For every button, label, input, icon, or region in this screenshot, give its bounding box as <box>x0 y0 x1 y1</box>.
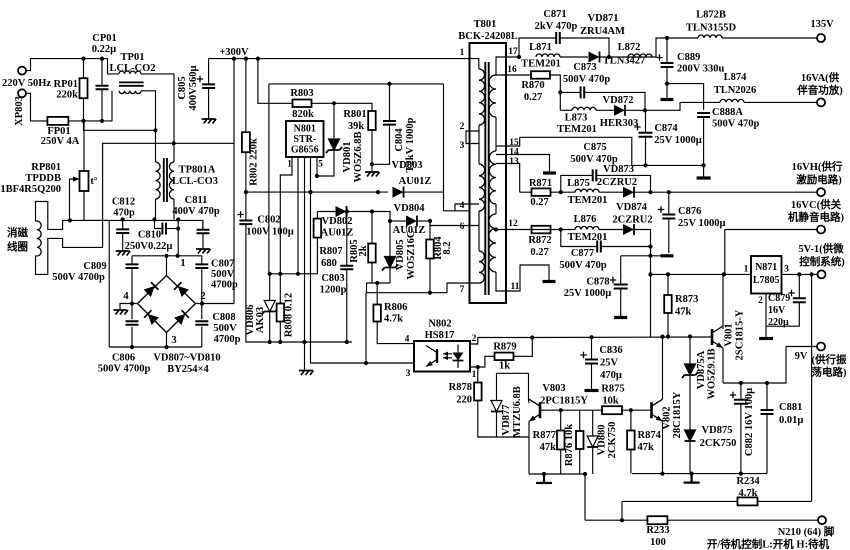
resistor R877 <box>557 431 565 450</box>
node V802 base node <box>629 408 633 412</box>
wire V803 base row <box>540 409 602 411</box>
svg-text:25V 1000µ: 25V 1000µ <box>654 135 702 146</box>
terminal 16VC <box>817 226 825 234</box>
wire VD806 line <box>269 274 271 301</box>
node TP801A top <box>153 128 157 132</box>
wire fuse to filter <box>68 91 112 121</box>
winding T801 sec lower <box>489 214 496 272</box>
terminal 135V <box>817 34 825 42</box>
ground N871 <box>759 337 773 340</box>
nc bar pin11 <box>543 280 556 283</box>
node C875 tap <box>559 190 563 194</box>
wire C810 left <box>155 220 163 229</box>
svg-text:TP801A: TP801A <box>179 165 216 176</box>
wire C874 line <box>645 110 647 133</box>
transformer T801 box <box>470 43 507 303</box>
wire C806 bottom <box>131 327 133 347</box>
ground C811 <box>196 249 211 254</box>
svg-text:135V: 135V <box>810 19 834 30</box>
svg-text:2CZRU2: 2CZRU2 <box>597 177 637 188</box>
node R870 node <box>558 90 562 94</box>
node 16V rail mid <box>648 244 652 248</box>
svg-text:1: 1 <box>180 258 185 269</box>
wire T801 right column <box>495 69 497 75</box>
wire degauss top staircase <box>36 202 85 230</box>
svg-text:25V 1000µ: 25V 1000µ <box>564 288 612 299</box>
wire TP01 upper out <box>141 74 174 143</box>
svg-text:2CK750: 2CK750 <box>700 438 737 449</box>
svg-text:C889: C889 <box>677 52 700 63</box>
svg-text:L874: L874 <box>724 72 748 83</box>
arrow RP801 <box>70 178 78 180</box>
svg-text:VD871: VD871 <box>588 13 619 24</box>
nc bar pin14 <box>543 171 556 174</box>
optocoupler N802 box <box>414 341 470 372</box>
resistor R873 <box>664 295 672 313</box>
resistor R876 <box>576 431 584 449</box>
wire C888A bottom <box>703 117 705 177</box>
wire snubber top <box>269 83 444 85</box>
terminal 16VA <box>817 98 825 106</box>
inductor TP01 upper <box>119 71 141 74</box>
svg-text:L872B: L872B <box>696 10 726 21</box>
diode VD806 zener <box>264 301 275 312</box>
svg-text:R807: R807 <box>319 246 342 257</box>
inductor L875 <box>575 189 599 192</box>
wire CP01 top <box>101 59 103 86</box>
svg-text:C805: C805 <box>177 76 188 99</box>
winding T801 primary mid <box>479 164 485 211</box>
svg-text:500V 470p: 500V 470p <box>559 260 607 271</box>
wire return riser <box>367 283 373 293</box>
wire C803 line <box>346 212 348 266</box>
svg-text:820k: 820k <box>292 109 314 120</box>
ground C836 <box>585 389 599 392</box>
wire 16VC line <box>725 229 817 231</box>
svg-text:VD872: VD872 <box>603 95 634 106</box>
svg-text:0.22µ: 0.22µ <box>92 44 116 55</box>
svg-text:STR-: STR- <box>293 134 316 145</box>
wire C889 line <box>666 38 668 63</box>
wire C810 right <box>166 228 178 230</box>
svg-text:5V-1(供微: 5V-1(供微 <box>798 242 844 255</box>
wire FP01 to TP801A <box>84 121 156 130</box>
wire R871 in <box>520 191 532 193</box>
node mid bus <box>121 217 125 221</box>
capacitor C807 <box>195 264 208 268</box>
wire pin12 row <box>532 229 576 231</box>
node hot bus dots <box>244 190 248 194</box>
inductor TP801A left <box>156 162 161 199</box>
svg-text:500V 4700p: 500V 4700p <box>52 272 105 283</box>
wire pin17 stub <box>496 57 519 69</box>
inductor TP01 lower <box>119 91 141 94</box>
wire R873 line <box>667 274 669 295</box>
wire L871 out <box>560 56 588 58</box>
wire R877 line <box>560 410 562 430</box>
svg-text:17: 17 <box>508 47 518 57</box>
wire R879 path <box>478 356 495 367</box>
thermistor RP801 <box>80 171 89 191</box>
svg-text:200V 330u: 200V 330u <box>677 64 725 75</box>
svg-text:R802 220k: R802 220k <box>249 138 260 186</box>
IC N871 box <box>751 256 782 294</box>
svg-text:V801: V801 <box>724 323 735 346</box>
bridge diamond <box>138 276 196 333</box>
ground C888A <box>697 176 711 179</box>
wire V802 emitter <box>662 421 664 473</box>
svg-text:7: 7 <box>460 285 465 295</box>
svg-text:C882 16V 100µ: C882 16V 100µ <box>744 388 755 456</box>
svg-text:1: 1 <box>472 370 477 380</box>
wire N802 pin3 drop <box>365 293 367 363</box>
svg-text:荡电路): 荡电路) <box>812 366 847 379</box>
diode VD801 zener <box>329 139 340 150</box>
LED arrows <box>443 354 452 358</box>
capacitor C836 <box>585 360 598 364</box>
wire R233 row <box>585 519 647 521</box>
core TP801A <box>164 158 167 202</box>
svg-text:2: 2 <box>460 122 465 132</box>
wire R871 out <box>551 191 576 193</box>
wire R807 riser <box>316 212 318 219</box>
capacitor C877 <box>597 241 601 253</box>
node RP801 wiper junction <box>68 218 72 222</box>
svg-text:G8656: G8656 <box>291 145 319 156</box>
wire C836 line <box>591 337 593 359</box>
node N802 pin1 <box>476 365 480 369</box>
svg-text:C873: C873 <box>573 62 596 73</box>
svg-text:2: 2 <box>758 296 763 306</box>
svg-text:控制系统): 控制系统) <box>799 255 845 268</box>
wire L875 out <box>599 191 623 193</box>
svg-text:TLN3155D: TLN3155D <box>686 23 737 34</box>
svg-text:V803: V803 <box>542 383 565 394</box>
svg-text:1k: 1k <box>499 361 510 372</box>
svg-text:N802: N802 <box>428 319 451 330</box>
wire 300V to bridge <box>233 59 235 304</box>
capacitor C812 <box>116 229 129 233</box>
fuse FP01 <box>47 117 68 125</box>
wire R806 line <box>376 283 378 305</box>
svg-text:C809: C809 <box>83 261 106 272</box>
inductor TP801A right <box>169 162 174 199</box>
node R234 riser <box>620 518 624 522</box>
wire C811 line <box>202 220 204 229</box>
wire R875 out <box>622 409 652 411</box>
svg-text:V802: V802 <box>662 406 673 429</box>
resistor R803 <box>293 100 312 108</box>
wire N801 pin1 <box>280 157 292 304</box>
svg-text:C881: C881 <box>779 402 802 413</box>
wire TP801A right bottom <box>173 199 175 220</box>
wire pin12 stub <box>496 229 531 231</box>
wire VD801 line <box>333 103 335 138</box>
svg-text:8.2: 8.2 <box>442 241 453 254</box>
capacitor C804 <box>383 121 396 125</box>
wire VD877 top <box>497 372 529 374</box>
svg-text:9V: 9V <box>795 351 808 362</box>
node V803 base node <box>559 408 563 412</box>
svg-text:机静音电路): 机静音电路) <box>788 211 844 224</box>
wire filtered AC bus <box>84 219 109 221</box>
svg-text:LCL-CO3: LCL-CO3 <box>172 176 218 187</box>
wire pin15 path <box>520 137 704 165</box>
node bridge bottom <box>130 345 134 349</box>
svg-text:47k: 47k <box>638 442 655 453</box>
svg-text:TPDDB: TPDDB <box>25 173 61 184</box>
svg-text:2SC1815-Y: 2SC1815-Y <box>735 309 746 360</box>
svg-text:AK03: AK03 <box>255 307 266 333</box>
wire pin14 stub <box>496 155 550 172</box>
terminal AC input line 2 <box>18 89 26 97</box>
wire emitter gnd row <box>529 473 585 475</box>
capacitor C879 <box>793 298 806 302</box>
svg-text:500V 470p: 500V 470p <box>563 74 611 85</box>
wire L874 out <box>744 101 817 103</box>
capacitor C876 <box>662 215 675 219</box>
inductor L871 <box>536 54 560 57</box>
resistor R870 <box>531 71 550 79</box>
svg-text:L873: L873 <box>565 113 588 124</box>
transistor V802 <box>650 402 653 418</box>
svg-text:10k: 10k <box>602 396 619 407</box>
wire VD802 out <box>347 212 391 222</box>
wire C877 branch <box>561 230 597 247</box>
node VD805 bottom node <box>375 281 379 285</box>
IC N801 box <box>286 121 324 157</box>
terminal AC input line 1 <box>18 67 26 75</box>
svg-text:VD874: VD874 <box>616 202 648 213</box>
node C804 top <box>387 82 391 86</box>
svg-text:VD801: VD801 <box>342 142 353 173</box>
wire bridge bottom riser <box>166 333 168 348</box>
wire standby drop <box>584 474 586 520</box>
wire VD803 out <box>404 191 444 193</box>
node rail dots <box>232 57 236 61</box>
svg-text:C888A: C888A <box>712 107 743 118</box>
wire C810 node riser <box>177 220 179 256</box>
wire C879 line <box>798 274 800 298</box>
core TP01 <box>119 82 144 85</box>
svg-text:R803: R803 <box>290 88 313 99</box>
svg-text:HER303: HER303 <box>600 118 639 129</box>
wire pin11 loop <box>496 265 549 291</box>
svg-text:R234: R234 <box>736 476 760 487</box>
svg-text:0.01µ: 0.01µ <box>779 415 803 426</box>
wire VD806 top <box>270 273 318 275</box>
svg-text:TLN2026: TLN2026 <box>714 85 757 96</box>
wire R803 feed <box>258 59 270 104</box>
wire clamp row <box>317 211 336 213</box>
capacitor C803 <box>340 266 353 270</box>
ground V803 <box>536 474 552 483</box>
wire N801 pin2 <box>297 157 299 274</box>
wire TP01 lower out <box>141 91 156 162</box>
svg-text:1BF4R5Q200: 1BF4R5Q200 <box>0 184 61 195</box>
wire C881 line <box>766 383 768 410</box>
node VD871 out <box>607 55 611 59</box>
svg-text:R877: R877 <box>533 430 556 441</box>
svg-text:VD807~VD810: VD807~VD810 <box>153 353 220 364</box>
svg-text:470p: 470p <box>113 208 135 219</box>
wire pin16 stub <box>496 74 531 76</box>
wire input top <box>26 59 119 74</box>
svg-text:TEM201: TEM201 <box>557 124 597 135</box>
svg-text:C879: C879 <box>768 293 790 304</box>
svg-text:R870: R870 <box>521 80 544 91</box>
svg-text:13: 13 <box>509 157 519 167</box>
node C877 tap <box>559 227 563 231</box>
capacitor C810 <box>162 223 166 235</box>
winding T801 sec upper <box>489 75 496 117</box>
node pin2 <box>200 301 204 305</box>
wire T801 left column <box>478 125 480 164</box>
svg-text:VD875A: VD875A <box>696 350 707 389</box>
svg-text:12: 12 <box>508 219 518 229</box>
wire hot bus 192 <box>246 191 388 193</box>
svg-text:开/待机控制L:开机 H:待机: 开/待机控制L:开机 H:待机 <box>707 538 830 550</box>
resistor R807 <box>314 219 322 238</box>
ground C812 <box>116 251 131 256</box>
svg-text:2CZRU2: 2CZRU2 <box>612 215 652 226</box>
svg-text:R874: R874 <box>638 430 662 441</box>
wire C876 line <box>668 192 670 214</box>
wire VD804 row <box>390 220 406 222</box>
svg-text:C810: C810 <box>138 230 161 241</box>
inductor L874 <box>720 99 744 102</box>
svg-text:39k: 39k <box>348 121 365 132</box>
ground C805 <box>202 119 217 124</box>
bar C878 bottom <box>614 316 627 319</box>
node R801 gnd <box>370 162 374 166</box>
svg-text:250V0.22µ: 250V0.22µ <box>125 241 173 252</box>
ground emitter bus <box>684 474 700 483</box>
svg-text:R879: R879 <box>493 342 516 353</box>
wire to 135V <box>722 37 817 39</box>
node pin12 tap <box>494 227 498 231</box>
wire V802 collector <box>662 337 664 400</box>
resistor R872 <box>532 226 551 234</box>
wire C809 line <box>131 256 133 265</box>
svg-text:4.7k: 4.7k <box>384 314 403 325</box>
svg-text:C806: C806 <box>112 353 135 364</box>
wire R870 out <box>550 75 560 110</box>
svg-text:RP801: RP801 <box>31 162 61 173</box>
wire C875 branch <box>561 175 593 192</box>
wire C804 top <box>389 84 391 121</box>
resistor R806 <box>373 305 381 322</box>
transistor V801 <box>711 329 714 345</box>
svg-text:C871: C871 <box>543 9 566 20</box>
diode VD807 <box>144 282 159 297</box>
wire RP801 wiper <box>69 179 71 220</box>
svg-text:RP01: RP01 <box>54 79 79 90</box>
svg-text:25V 1000µ: 25V 1000µ <box>678 218 726 229</box>
svg-text:R875: R875 <box>601 384 624 395</box>
wire 5V right drop <box>811 274 813 501</box>
wire L873 row <box>560 109 572 111</box>
svg-text:100V 100µ: 100V 100µ <box>246 227 294 238</box>
svg-text:R873: R873 <box>675 294 698 305</box>
wire V803 emitter <box>528 421 530 474</box>
svg-text:16: 16 <box>507 65 517 75</box>
svg-text:C802: C802 <box>257 215 280 226</box>
wire 16VA line <box>645 102 720 110</box>
svg-text:C878: C878 <box>586 277 609 288</box>
svg-text:500V 4700p: 500V 4700p <box>98 364 151 375</box>
capacitor C882 <box>734 400 748 404</box>
node N802 pin3 wire <box>364 361 368 365</box>
svg-text:4: 4 <box>405 335 410 345</box>
wire VD805 line <box>389 221 391 257</box>
resistor R805 <box>368 244 376 263</box>
winding T801 sec mid <box>489 151 496 204</box>
svg-text:0.27: 0.27 <box>530 197 548 208</box>
wire emitter bus <box>632 473 767 475</box>
capacitor C878 <box>614 285 628 289</box>
wire N871 pin2 stem <box>765 294 767 338</box>
wire pin2 stub <box>196 303 235 305</box>
inductor L876 <box>575 227 599 230</box>
wire +300V rail <box>209 59 479 69</box>
svg-text:R878: R878 <box>449 382 472 393</box>
svg-text:WO5Z9.1B: WO5Z9.1B <box>707 348 718 399</box>
svg-text:XP803: XP803 <box>14 96 25 126</box>
wire R874 drop <box>630 410 632 430</box>
svg-text:4700p: 4700p <box>211 280 238 291</box>
node TP801A junction <box>172 141 176 145</box>
capacitor C875 <box>593 169 597 181</box>
svg-text:L872: L872 <box>618 42 641 53</box>
node C889 bottom <box>665 82 669 86</box>
wire CP01 bottom <box>101 89 103 121</box>
svg-text:HS817: HS817 <box>425 330 455 341</box>
wire bridge bottom <box>109 346 202 348</box>
wire VD877 line <box>496 373 498 400</box>
svg-text:N210 (64) 脚: N210 (64) 脚 <box>778 525 835 538</box>
node C810 right <box>176 226 180 230</box>
wire VD880 line <box>592 410 594 436</box>
svg-text:3: 3 <box>784 265 789 275</box>
svg-text:220V 50Hz: 220V 50Hz <box>2 78 51 89</box>
svg-text:N801: N801 <box>294 124 316 135</box>
wire R808 bottom <box>279 322 281 343</box>
svg-text:2kV 470p: 2kV 470p <box>535 21 578 32</box>
diode VD875 <box>685 430 696 441</box>
svg-text:47k: 47k <box>675 307 692 318</box>
wire R803 row <box>270 102 293 104</box>
terminal N210 <box>818 516 826 524</box>
svg-text:VD873: VD873 <box>603 164 634 175</box>
node control rail dots <box>530 335 534 339</box>
wire R805 line <box>371 212 373 244</box>
svg-text:BCK-24208L: BCK-24208L <box>458 31 518 42</box>
svg-text:16V: 16V <box>768 305 786 316</box>
svg-text:TEM201: TEM201 <box>568 195 608 206</box>
resistor R804 <box>426 240 434 259</box>
wire VD875A line <box>689 337 691 365</box>
node VD801 top <box>332 101 336 105</box>
node bridge riser <box>164 254 168 258</box>
svg-text:R801: R801 <box>343 109 366 120</box>
wire 9V line <box>786 346 817 348</box>
winding T801 primary upper <box>479 69 485 125</box>
svg-text:1: 1 <box>287 160 292 170</box>
svg-text:4.7k: 4.7k <box>739 488 758 499</box>
wire N801 pin3 <box>304 157 306 346</box>
svg-text:16VC(供关: 16VC(供关 <box>791 198 842 211</box>
